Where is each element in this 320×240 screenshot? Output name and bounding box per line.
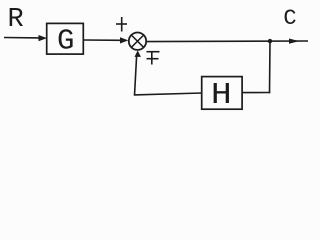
wire: block H to feedback corner	[134, 93, 202, 95]
svg-text:G: G	[57, 25, 74, 58]
wire: summing junction to output C	[146, 40, 308, 43]
summing junction circle	[129, 33, 146, 50]
block H (feedback transfer function box)	[202, 77, 242, 110]
minus-plus sign (polarity of feedback input)	[147, 52, 160, 65]
branch node dot (takeoff point)	[268, 39, 272, 43]
wire: branch corner to block H	[242, 92, 270, 94]
svg-text:H: H	[211, 78, 232, 113]
svg-text:C: C	[283, 6, 296, 31]
arrowhead into block G	[39, 35, 48, 41]
wire: feedback up into summing junction	[135, 56, 137, 96]
wire: block G to summing junction	[84, 39, 122, 41]
arrowhead into summing junction	[120, 37, 128, 43]
arrowhead into summing junction bottom	[135, 50, 141, 57]
block G (forward transfer function box)	[47, 23, 84, 54]
summing junction X diagonals	[131, 35, 143, 47]
svg-text:R: R	[8, 5, 24, 35]
arrowhead on output wire	[289, 39, 299, 44]
wire: branch down from takeoff point	[269, 41, 272, 93]
plus sign (polarity of forward input)	[116, 17, 127, 32]
wire: input R to block G	[4, 37, 40, 39]
